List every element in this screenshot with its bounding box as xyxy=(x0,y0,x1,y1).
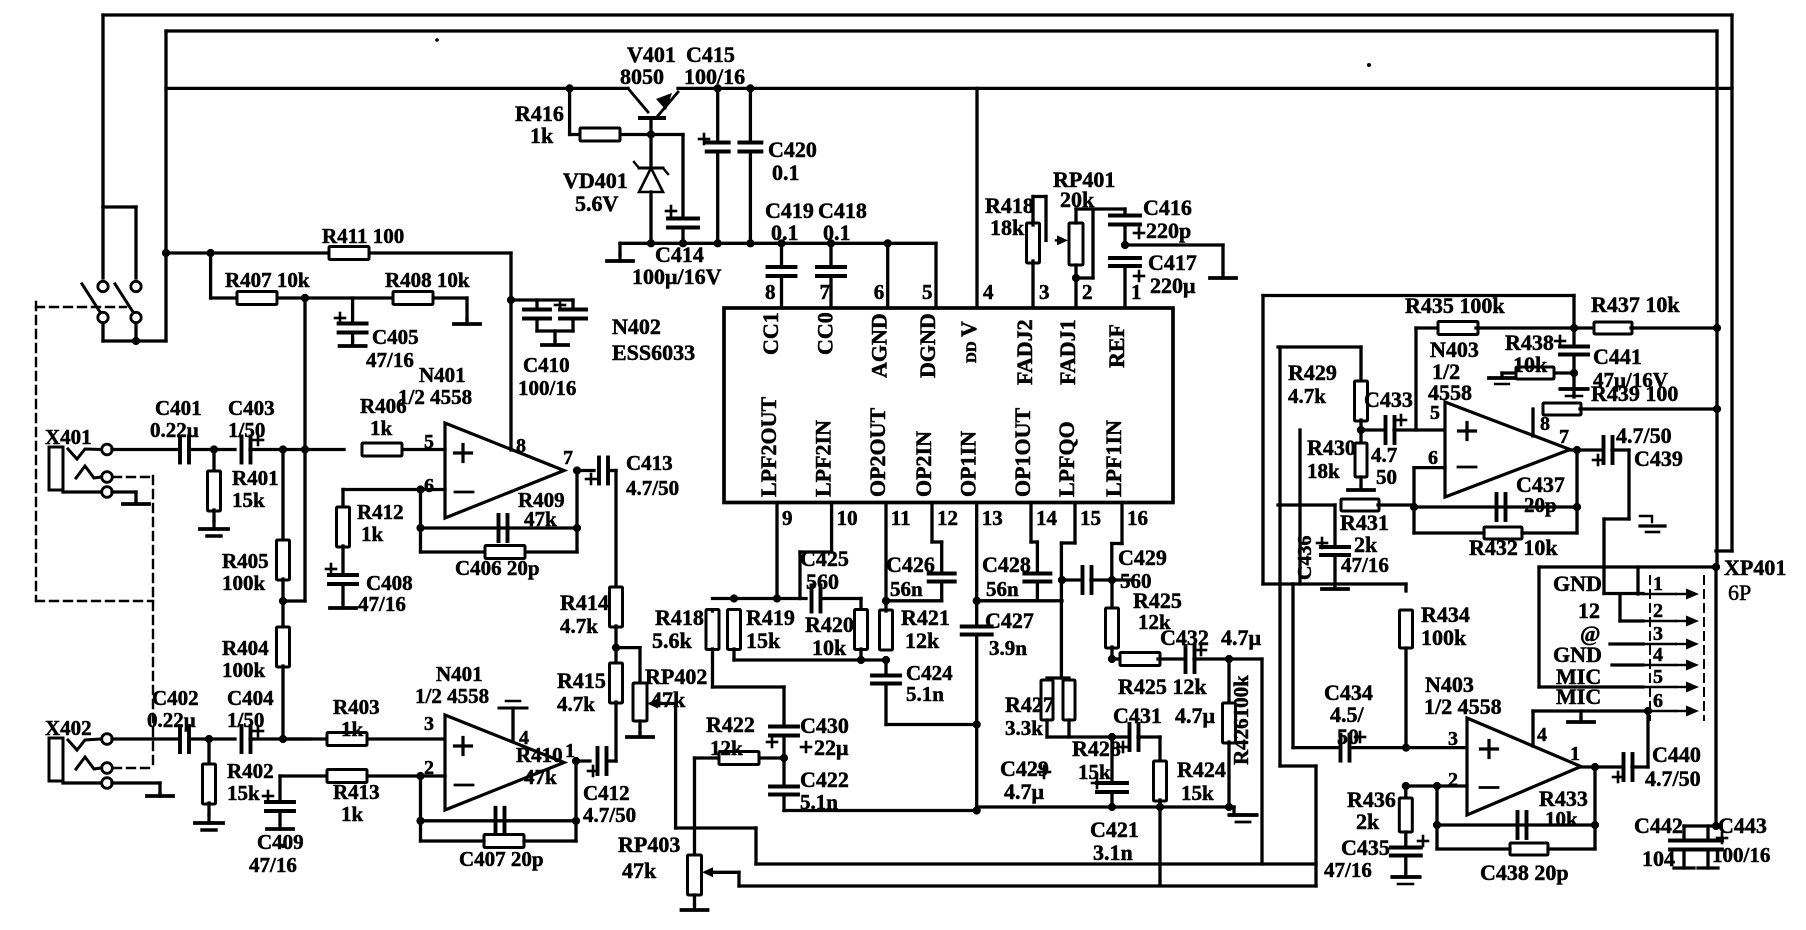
svg-text:12k: 12k xyxy=(905,628,940,653)
svg-text:3.3k: 3.3k xyxy=(1005,716,1043,740)
svg-text:C406 20p: C406 20p xyxy=(455,556,540,580)
svg-text:C440: C440 xyxy=(1652,742,1701,767)
svg-text:R415: R415 xyxy=(557,668,606,693)
svg-text:AGND: AGND xyxy=(867,313,892,378)
svg-text:10k: 10k xyxy=(1545,807,1578,831)
svg-text:100/16: 100/16 xyxy=(684,64,745,89)
svg-text:R439 100: R439 100 xyxy=(1591,381,1678,406)
svg-text:R420: R420 xyxy=(805,612,854,637)
svg-text:R406: R406 xyxy=(360,394,407,418)
svg-text:C432: C432 xyxy=(1160,625,1209,650)
svg-text:18k: 18k xyxy=(990,215,1025,240)
svg-text:10: 10 xyxy=(837,506,858,530)
svg-text:1/2 4558: 1/2 4558 xyxy=(398,385,472,409)
svg-text:220μ: 220μ xyxy=(1150,273,1196,298)
svg-text:4: 4 xyxy=(1653,644,1663,666)
svg-text:5.1n: 5.1n xyxy=(906,682,944,706)
svg-text:C441: C441 xyxy=(1593,344,1642,369)
svg-text:R408 10k: R408 10k xyxy=(385,268,470,292)
svg-text:DGND: DGND xyxy=(915,313,940,378)
svg-text:5.1n: 5.1n xyxy=(800,790,838,814)
svg-text:LPF2OUT: LPF2OUT xyxy=(756,396,781,497)
svg-text:7: 7 xyxy=(820,280,831,304)
svg-text:1: 1 xyxy=(1653,573,1663,595)
svg-text:4.7/50: 4.7/50 xyxy=(626,476,679,500)
svg-text:R427: R427 xyxy=(1005,692,1054,717)
svg-text:X401: X401 xyxy=(45,425,92,449)
svg-text:C438 20p: C438 20p xyxy=(1480,860,1569,885)
svg-text:C403: C403 xyxy=(228,396,275,420)
svg-text:XP401: XP401 xyxy=(1724,555,1786,580)
svg-text:15k: 15k xyxy=(746,628,781,653)
svg-text:R404: R404 xyxy=(222,636,269,660)
svg-text:11: 11 xyxy=(891,506,911,530)
svg-text:8: 8 xyxy=(516,435,526,457)
svg-text:GND: GND xyxy=(1553,571,1602,596)
svg-text:0.1: 0.1 xyxy=(823,220,851,245)
svg-text:47/16: 47/16 xyxy=(1341,553,1389,577)
svg-text:12: 12 xyxy=(1578,598,1600,623)
svg-text:C407 20p: C407 20p xyxy=(459,847,544,871)
svg-text:20p: 20p xyxy=(1524,493,1557,517)
svg-text:15k: 15k xyxy=(232,488,265,512)
svg-text:47/16: 47/16 xyxy=(249,853,297,877)
svg-text:R432 10k: R432 10k xyxy=(1469,535,1558,560)
svg-text:15k: 15k xyxy=(227,781,260,805)
svg-text:15: 15 xyxy=(1080,506,1101,530)
svg-text:4: 4 xyxy=(1537,724,1547,746)
svg-text:C412: C412 xyxy=(583,781,630,805)
svg-text:C439: C439 xyxy=(1634,446,1683,471)
svg-text:47/16: 47/16 xyxy=(1324,858,1372,882)
svg-text:50: 50 xyxy=(1337,724,1359,749)
svg-text:N402: N402 xyxy=(612,314,661,339)
svg-text:100k: 100k xyxy=(222,658,266,682)
svg-text:C421: C421 xyxy=(1090,817,1139,842)
svg-text:C429: C429 xyxy=(1000,756,1049,781)
svg-text:C435: C435 xyxy=(1341,835,1390,860)
svg-text:C425: C425 xyxy=(800,546,849,571)
svg-text:N401: N401 xyxy=(419,363,466,387)
svg-text:1: 1 xyxy=(1131,280,1142,304)
svg-text:C405: C405 xyxy=(372,325,419,349)
svg-text:56n: 56n xyxy=(890,577,923,601)
svg-text:3.1n: 3.1n xyxy=(1093,840,1133,865)
svg-text:1: 1 xyxy=(1570,743,1580,765)
svg-text:C428: C428 xyxy=(982,552,1031,577)
svg-text:FADJ1: FADJ1 xyxy=(1055,319,1080,385)
svg-text:C433: C433 xyxy=(1364,387,1413,412)
svg-text:5.6V: 5.6V xyxy=(575,191,619,216)
svg-text:6: 6 xyxy=(1428,447,1438,469)
svg-text:104: 104 xyxy=(1642,846,1675,871)
svg-text:2: 2 xyxy=(1653,600,1663,622)
svg-text:0.22μ: 0.22μ xyxy=(150,418,199,442)
svg-text:1/2 4558: 1/2 4558 xyxy=(1424,694,1502,719)
svg-text:C416: C416 xyxy=(1143,195,1192,220)
svg-text:R424: R424 xyxy=(1177,757,1226,782)
svg-text:47/16: 47/16 xyxy=(358,592,406,616)
svg-text:4.7k: 4.7k xyxy=(1288,384,1326,408)
svg-text:5: 5 xyxy=(922,280,933,304)
svg-text:C422: C422 xyxy=(800,767,849,792)
svg-text:220p: 220p xyxy=(1146,218,1191,243)
svg-text:FADJ2: FADJ2 xyxy=(1012,319,1037,385)
svg-text:R418: R418 xyxy=(655,605,704,630)
svg-text:4.7k: 4.7k xyxy=(560,614,598,638)
svg-text:C426: C426 xyxy=(886,552,935,577)
svg-text:16: 16 xyxy=(1127,506,1148,530)
svg-text:R429: R429 xyxy=(1288,360,1337,385)
svg-text:OP2IN: OP2IN xyxy=(911,431,936,497)
svg-text:C401: C401 xyxy=(155,396,202,420)
svg-text:OP1IN: OP1IN xyxy=(956,431,981,497)
svg-text:R419: R419 xyxy=(746,605,795,630)
svg-text:LPF1IN: LPF1IN xyxy=(1101,420,1126,497)
svg-text:R422: R422 xyxy=(706,712,755,737)
svg-text:100μ/16V: 100μ/16V xyxy=(632,264,722,289)
svg-text:100/16: 100/16 xyxy=(518,376,576,400)
svg-text:C417: C417 xyxy=(1148,250,1197,275)
svg-text:C420: C420 xyxy=(768,137,817,162)
svg-text:R413: R413 xyxy=(333,780,380,804)
svg-text:VD401: VD401 xyxy=(563,168,628,193)
svg-text:8050: 8050 xyxy=(620,64,664,89)
svg-text:R410: R410 xyxy=(516,743,563,767)
svg-text:C413: C413 xyxy=(626,451,673,475)
svg-text:LPFQO: LPFQO xyxy=(1054,421,1079,497)
svg-text:0.1: 0.1 xyxy=(772,160,800,185)
svg-text:3: 3 xyxy=(1448,728,1458,750)
svg-text:C429: C429 xyxy=(1118,545,1167,570)
svg-text:OP2OUT: OP2OUT xyxy=(865,407,890,497)
svg-text:47k: 47k xyxy=(524,765,557,789)
svg-text:C431: C431 xyxy=(1113,703,1162,728)
svg-text:100k: 100k xyxy=(222,571,266,595)
svg-text:7: 7 xyxy=(1559,426,1569,448)
svg-text:1k: 1k xyxy=(361,522,384,546)
svg-text:N401: N401 xyxy=(436,662,483,686)
svg-text:2: 2 xyxy=(1448,769,1458,791)
svg-text:ESS6033: ESS6033 xyxy=(612,340,695,365)
svg-text:R426100k: R426100k xyxy=(1229,675,1253,765)
svg-text:4.7/50: 4.7/50 xyxy=(1645,766,1701,791)
svg-text:100k: 100k xyxy=(1421,625,1467,650)
svg-text:6: 6 xyxy=(874,280,885,304)
svg-text:OP1OUT: OP1OUT xyxy=(1010,407,1035,497)
svg-text:2k: 2k xyxy=(1356,809,1380,834)
svg-text:C402: C402 xyxy=(152,686,199,710)
svg-text:1/2 4558: 1/2 4558 xyxy=(415,684,489,708)
svg-text:50: 50 xyxy=(1376,465,1397,489)
svg-text:R437 10k: R437 10k xyxy=(1591,292,1680,317)
svg-text:R407 10k: R407 10k xyxy=(225,268,310,292)
svg-text:R411 100: R411 100 xyxy=(322,224,404,248)
svg-text:56n: 56n xyxy=(986,577,1019,601)
svg-text:CC1: CC1 xyxy=(758,312,783,355)
svg-text:R412: R412 xyxy=(357,500,404,524)
svg-text:12: 12 xyxy=(937,506,958,530)
svg-text:10k: 10k xyxy=(1513,352,1548,377)
svg-text:R434: R434 xyxy=(1421,602,1470,627)
svg-text:15k: 15k xyxy=(1078,760,1111,784)
svg-text:2: 2 xyxy=(1082,280,1093,304)
svg-text:3.9n: 3.9n xyxy=(989,636,1027,660)
svg-text:22μ: 22μ xyxy=(814,735,849,760)
svg-text:V: V xyxy=(956,321,981,337)
svg-text:47k: 47k xyxy=(524,507,557,531)
svg-text:4.7μ: 4.7μ xyxy=(1221,625,1262,650)
svg-text:8: 8 xyxy=(765,280,776,304)
svg-text:4.7/50: 4.7/50 xyxy=(583,803,636,827)
svg-text:12k: 12k xyxy=(710,736,743,760)
svg-text:1/50: 1/50 xyxy=(228,418,265,442)
svg-text:C436: C436 xyxy=(1294,536,1316,580)
svg-text:4.7/50: 4.7/50 xyxy=(1616,423,1672,448)
svg-text:15k: 15k xyxy=(1181,781,1214,805)
svg-text:C410: C410 xyxy=(523,353,570,377)
svg-text:3: 3 xyxy=(1039,280,1050,304)
svg-text:X402: X402 xyxy=(45,716,92,740)
svg-text:4.7μ: 4.7μ xyxy=(1175,703,1216,728)
svg-text:R435 100k: R435 100k xyxy=(1405,293,1505,318)
svg-text:CC0: CC0 xyxy=(813,312,838,355)
svg-text:R425 12k: R425 12k xyxy=(1118,674,1207,699)
svg-text:47/16: 47/16 xyxy=(366,348,414,372)
svg-text:18k: 18k xyxy=(1307,459,1340,483)
svg-text:4.7μ: 4.7μ xyxy=(1004,779,1045,804)
svg-text:1k: 1k xyxy=(341,717,364,741)
svg-text:DD: DD xyxy=(964,341,980,363)
svg-text:R421: R421 xyxy=(901,605,950,630)
svg-text:3: 3 xyxy=(1653,623,1663,645)
svg-text:R430: R430 xyxy=(1307,435,1356,460)
svg-text:R414: R414 xyxy=(560,590,609,615)
svg-text:C409: C409 xyxy=(257,830,304,854)
svg-text:0.22μ: 0.22μ xyxy=(147,708,196,732)
svg-text:1k: 1k xyxy=(530,123,554,148)
svg-text:6: 6 xyxy=(1653,690,1663,712)
svg-text:6P: 6P xyxy=(1728,580,1751,605)
svg-text:R401: R401 xyxy=(232,466,279,490)
svg-text:R403: R403 xyxy=(333,695,380,719)
svg-text:5: 5 xyxy=(1653,666,1663,688)
svg-text:5: 5 xyxy=(1430,402,1440,424)
svg-text:5.6k: 5.6k xyxy=(652,628,693,653)
svg-text:4.7: 4.7 xyxy=(1371,443,1397,467)
svg-text:6: 6 xyxy=(424,475,434,497)
svg-text:R405: R405 xyxy=(222,549,269,573)
svg-text:100/16: 100/16 xyxy=(1712,843,1770,867)
svg-text:RP403: RP403 xyxy=(618,832,680,857)
svg-text:1k: 1k xyxy=(341,802,364,826)
svg-text:LPF2IN: LPF2IN xyxy=(811,420,836,497)
svg-text:9: 9 xyxy=(782,506,793,530)
svg-text:10k: 10k xyxy=(812,635,847,660)
svg-text:1k: 1k xyxy=(370,416,393,440)
svg-text:47k: 47k xyxy=(622,858,657,883)
svg-text:4.7k: 4.7k xyxy=(557,692,595,716)
svg-text:14: 14 xyxy=(1036,506,1058,530)
svg-text:4: 4 xyxy=(983,280,994,304)
svg-text:REF: REF xyxy=(1104,324,1129,368)
svg-text:C442: C442 xyxy=(1634,813,1683,838)
svg-text:7: 7 xyxy=(563,447,573,469)
svg-text:1/50: 1/50 xyxy=(227,708,264,732)
svg-text:C404: C404 xyxy=(227,686,274,710)
svg-text:3: 3 xyxy=(424,713,434,735)
svg-text:R402: R402 xyxy=(227,759,274,783)
svg-text:RP402: RP402 xyxy=(645,664,707,689)
svg-text:13: 13 xyxy=(982,506,1003,530)
svg-text:C443: C443 xyxy=(1718,813,1767,838)
svg-text:560: 560 xyxy=(806,569,839,594)
svg-text:C427: C427 xyxy=(985,608,1034,633)
